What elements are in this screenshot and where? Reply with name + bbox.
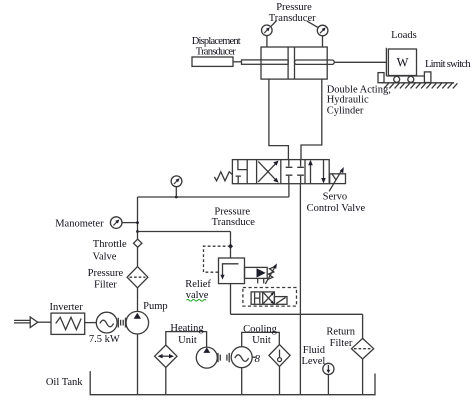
load mass W box xyxy=(388,49,416,76)
svg-text:Unit: Unit xyxy=(178,335,197,346)
node manometer junction xyxy=(136,221,139,224)
wire manometer branch xyxy=(122,222,137,224)
cooling unit heat exchanger xyxy=(269,345,290,367)
wire gauge stem right xyxy=(322,36,324,47)
wire relief drain xyxy=(230,284,232,315)
pressure gauge right xyxy=(317,25,328,36)
servo valve position 2 crossed arrows xyxy=(258,163,276,182)
wire cooling unit to tank xyxy=(279,366,281,394)
svg-text:8: 8 xyxy=(255,353,261,365)
wire return filter to tank xyxy=(362,359,364,395)
cooling unit bracket xyxy=(242,332,280,346)
relief valve adjustable spring xyxy=(267,267,274,280)
svg-text:Servo: Servo xyxy=(323,191,348,202)
svg-text:Heating: Heating xyxy=(170,323,204,334)
pressure gauge left xyxy=(262,25,273,36)
node relief branch junction xyxy=(136,230,139,233)
svg-text:Transducer: Transducer xyxy=(269,13,316,24)
relief valve body xyxy=(219,258,245,284)
svg-text:Transducer: Transducer xyxy=(196,47,237,58)
servo valve position 1 internals xyxy=(236,160,248,184)
servo valve centre position blocked ports xyxy=(286,160,304,184)
unloading valve enclosure dashed xyxy=(243,288,297,307)
svg-text:Filter: Filter xyxy=(330,338,353,349)
wire valve T port to tank xyxy=(299,184,301,395)
svg-text:Displacement: Displacement xyxy=(192,36,241,47)
piston rod right xyxy=(295,60,335,64)
return filter xyxy=(352,338,374,359)
unloading valve body xyxy=(251,292,274,304)
svg-text:Relief: Relief xyxy=(185,279,211,290)
wire circulation motor to tank xyxy=(241,368,243,395)
svg-text:Return: Return xyxy=(326,327,355,338)
ground hatching xyxy=(384,83,457,89)
svg-text:Filter: Filter xyxy=(94,280,117,291)
servo valve return spring xyxy=(214,172,232,181)
servo valve body xyxy=(232,160,329,184)
wire riser lower xyxy=(137,288,139,312)
motor cable squiggle xyxy=(252,356,255,358)
displacement transducer body xyxy=(192,57,233,66)
svg-text:Control Valve: Control Valve xyxy=(307,203,366,214)
wire cylinder port B xyxy=(301,79,322,160)
svg-text:Unit: Unit xyxy=(252,335,271,346)
svg-text:Loads: Loads xyxy=(391,30,417,41)
wire cylinder port A xyxy=(269,79,289,160)
wire relief branch vertical xyxy=(230,232,232,259)
piston rod left xyxy=(242,60,289,64)
manometer gauge xyxy=(110,217,122,229)
servo valve proportional solenoid xyxy=(330,174,346,184)
svg-text:Limit switch: Limit switch xyxy=(425,59,471,70)
wire heating unit to tank xyxy=(165,367,167,394)
main motor xyxy=(96,312,117,333)
label pointer lines xyxy=(271,21,277,27)
fluid level gauge xyxy=(323,363,334,374)
svg-text:Oil Tank: Oil Tank xyxy=(46,377,83,388)
wire transducer stem xyxy=(175,187,177,197)
heating unit heat exchanger xyxy=(155,345,177,367)
heating unit bracket xyxy=(166,332,207,348)
wire riser mid xyxy=(137,247,139,266)
svg-text:Fluid: Fluid xyxy=(303,345,326,356)
cart wheel left xyxy=(394,76,400,82)
oil tank xyxy=(90,371,375,395)
svg-text:Hydraulic: Hydraulic xyxy=(327,95,369,106)
cylinder body xyxy=(261,47,327,79)
wire pump riser upper xyxy=(137,197,139,240)
svg-text:Pump: Pump xyxy=(143,301,168,312)
limit switch block left xyxy=(378,73,384,83)
svg-text:Pressure: Pressure xyxy=(88,268,124,279)
node P-line / transducer junction xyxy=(175,196,178,199)
unloading valve position 2 crossed arrows xyxy=(263,293,273,304)
throttle valve xyxy=(134,239,142,247)
piston xyxy=(287,47,289,79)
relief valve vent stubs xyxy=(257,278,259,283)
wire valve P port xyxy=(288,184,290,197)
wire pilot line dashed xyxy=(204,246,231,272)
motor-pump coupling xyxy=(118,318,125,328)
wire pressure line P xyxy=(138,196,289,198)
svg-text:Valve: Valve xyxy=(93,252,117,263)
svg-text:Transduce: Transduce xyxy=(212,217,256,228)
svg-text:Manometer: Manometer xyxy=(55,219,104,230)
pressure filter xyxy=(127,267,148,288)
node pilot tap xyxy=(228,244,233,249)
wire transducer link xyxy=(233,61,242,63)
svg-text:Pressure: Pressure xyxy=(276,2,312,13)
inverter box xyxy=(51,313,85,334)
svg-text:7.5 kW: 7.5 kW xyxy=(89,334,120,345)
wire return header xyxy=(231,313,363,315)
wire inverter to motor xyxy=(85,322,97,324)
svg-text:Inverter: Inverter xyxy=(49,302,83,313)
unloading valve position 1 internals xyxy=(255,293,260,304)
pressure transducer gauge xyxy=(171,176,182,187)
supply feed lines xyxy=(14,319,30,321)
svg-text:Cooling: Cooling xyxy=(243,324,278,335)
wire rod to load cart xyxy=(334,61,386,63)
wire return filter drop xyxy=(362,314,364,338)
wire gauge stem left xyxy=(266,36,268,47)
circulation coupling xyxy=(218,353,229,362)
limit switch block right xyxy=(424,72,431,83)
load cart front post xyxy=(385,48,387,76)
wire supply to inverter xyxy=(38,321,51,323)
pump P1 xyxy=(126,311,149,334)
cart wheel right xyxy=(408,76,414,82)
ground line xyxy=(381,82,454,84)
wire riser below pump xyxy=(137,334,139,395)
svg-text:Throttle: Throttle xyxy=(93,239,127,250)
heating circulation pump xyxy=(196,347,217,368)
circulation motor xyxy=(231,347,252,368)
svg-text:Level: Level xyxy=(301,356,325,367)
svg-text:W: W xyxy=(397,56,409,70)
cart platform xyxy=(386,75,425,77)
supply arrow xyxy=(30,317,38,328)
svg-text:Pressure: Pressure xyxy=(214,207,250,218)
servo valve position 4 parallel arrows xyxy=(310,164,312,184)
wire relief branch horizontal xyxy=(138,231,231,233)
spellcheck squiggle xyxy=(187,300,207,302)
unloading valve solenoid xyxy=(274,297,287,305)
svg-text:Cylinder: Cylinder xyxy=(327,105,364,116)
relief valve pilot stage xyxy=(245,267,268,278)
wire fluid level stem xyxy=(327,375,329,395)
